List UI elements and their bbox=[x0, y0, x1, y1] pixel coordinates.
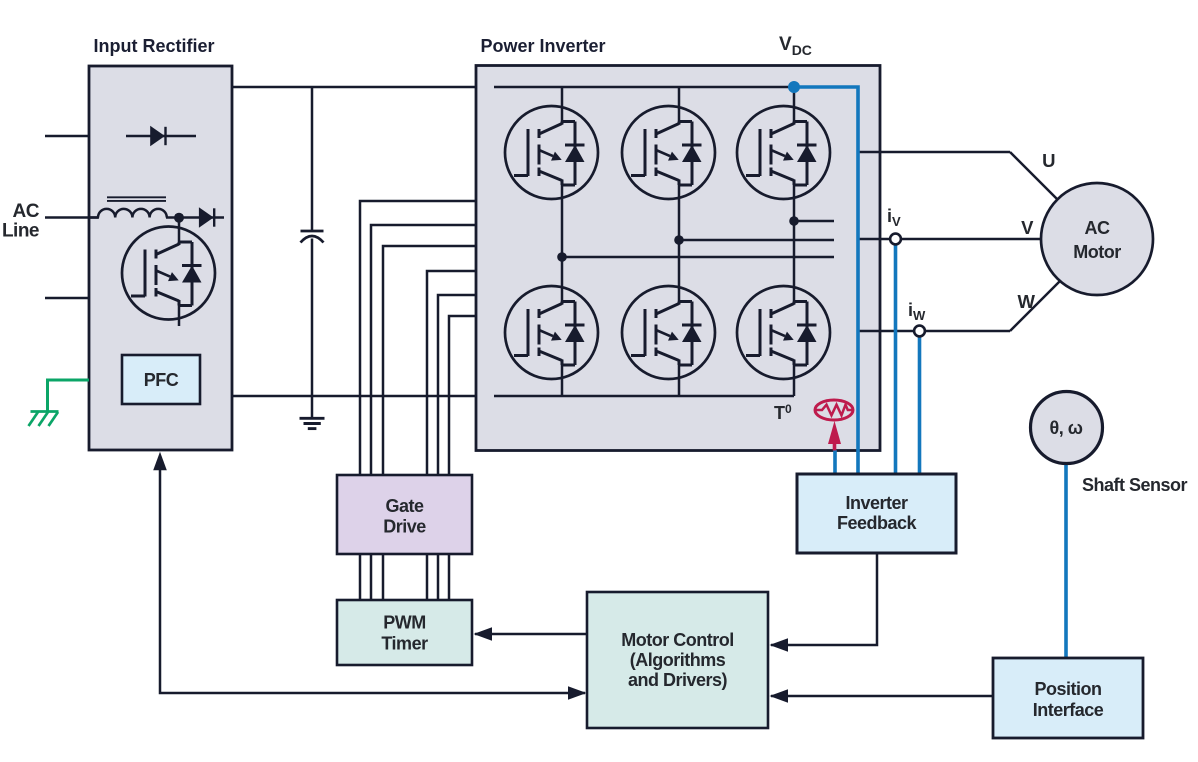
svg-text:V: V bbox=[1021, 217, 1034, 238]
svg-text:(Algorithms: (Algorithms bbox=[630, 650, 726, 670]
svg-text:PWM: PWM bbox=[383, 613, 426, 633]
svg-text:Motor: Motor bbox=[1073, 242, 1121, 262]
svg-text:Line: Line bbox=[2, 221, 39, 242]
svg-text:Shaft Sensor: Shaft Sensor bbox=[1082, 475, 1188, 495]
svg-text:AC: AC bbox=[13, 201, 40, 222]
svg-text:Drive: Drive bbox=[383, 517, 426, 537]
svg-text:and Drivers): and Drivers) bbox=[628, 670, 728, 690]
svg-text:Interface: Interface bbox=[1033, 700, 1104, 720]
svg-text:θ, ω: θ, ω bbox=[1050, 418, 1083, 438]
svg-text:AC: AC bbox=[1085, 218, 1110, 238]
svg-text:PFC: PFC bbox=[144, 370, 179, 390]
svg-text:Position: Position bbox=[1035, 679, 1102, 699]
svg-text:Input Rectifier: Input Rectifier bbox=[93, 36, 214, 56]
svg-text:Timer: Timer bbox=[381, 634, 428, 654]
svg-text:U: U bbox=[1042, 150, 1055, 171]
svg-text:Power Inverter: Power Inverter bbox=[480, 36, 605, 56]
svg-text:Inverter: Inverter bbox=[845, 493, 908, 513]
svg-text:Gate: Gate bbox=[385, 496, 424, 516]
svg-text:Motor Control: Motor Control bbox=[621, 630, 733, 650]
svg-text:Feedback: Feedback bbox=[837, 513, 918, 533]
svg-text:W: W bbox=[1018, 291, 1036, 312]
